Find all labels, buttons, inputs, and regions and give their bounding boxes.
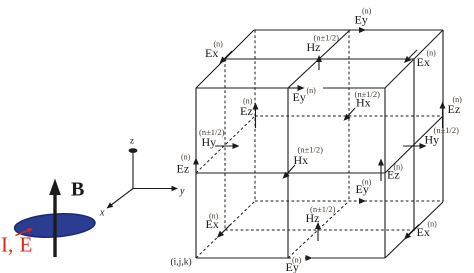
label Hx front (294, 145, 324, 168)
label Hz top (307, 33, 340, 55)
svg-text:(n): (n) (453, 95, 463, 104)
svg-text:E: E (20, 233, 33, 257)
svg-text:(n): (n) (362, 7, 372, 16)
svg-text:(n): (n) (394, 163, 404, 172)
label Ey back-bottom (356, 178, 372, 197)
svg-text:(n±1/2): (n±1/2) (355, 89, 381, 99)
label Ex bottom-right (417, 220, 438, 240)
svg-text:Ez: Ez (448, 102, 461, 116)
left face mid vertical (hidden) (224, 59, 226, 230)
label Ex bottom-left (206, 212, 219, 232)
back face mid horizontal (hidden) (255, 115, 443, 117)
svg-text:I,: I, (1, 233, 13, 257)
arrow Hz top-face center (316, 55, 322, 70)
bottom face mid horizontal (hidden) (225, 229, 414, 231)
top-left edge (196, 30, 254, 88)
top face mid horizontal (225, 58, 414, 60)
label Ez front-left (177, 153, 191, 176)
arrow Ey back-bottom (359, 198, 366, 204)
svg-text:Ez: Ez (240, 104, 253, 118)
arrow Ez back-left (253, 103, 259, 129)
right face mid vertical (413, 59, 415, 231)
arrow Hx back-face center (344, 108, 356, 121)
arrow Ex bottom-left (217, 224, 231, 238)
arrow Ey top-back (359, 27, 366, 33)
svg-text:(n): (n) (209, 212, 219, 221)
top face mid diagonal (288, 30, 350, 88)
front face mid vertical (287, 88, 289, 258)
front-bottom edge (with gap for Ey arrow) (196, 257, 385, 259)
back-bottom edge (hidden) (255, 200, 443, 202)
arrow Ez front-left (193, 158, 199, 176)
svg-text:(n): (n) (427, 49, 437, 58)
arrow Ex bottom-right (404, 225, 419, 240)
front-right edge (384, 88, 386, 258)
label B (71, 179, 84, 201)
svg-text:x: x (99, 208, 105, 219)
label Ez back-left (240, 97, 253, 119)
label Hy right (425, 125, 460, 147)
bottom face mid diagonal (hidden) (288, 201, 349, 258)
bottom-left edge (hidden) (196, 201, 255, 258)
svg-text:z: z (130, 136, 134, 146)
back face mid vertical (hidden) (348, 30, 350, 201)
front-left edge (195, 88, 197, 258)
label Ey front-top (293, 86, 317, 104)
label x (99, 208, 105, 219)
svg-text:(n): (n) (243, 97, 253, 106)
svg-text:(n±1/2): (n±1/2) (298, 145, 324, 155)
arrow Ey front-bottom (305, 255, 313, 261)
svg-text:(n): (n) (362, 178, 372, 187)
svg-text:y: y (179, 186, 185, 197)
axis y (133, 186, 178, 191)
bottom-right edge (385, 202, 443, 258)
back-left edge (hidden) (254, 30, 256, 201)
svg-text:(n): (n) (214, 40, 224, 49)
arrow Ey front-top (288, 85, 305, 91)
arrow Hx front-face center (283, 165, 296, 179)
label Ex top-right (417, 49, 437, 70)
top-back edge (254, 29, 443, 31)
label Hx back (355, 89, 381, 110)
arrow Ex top-right (404, 50, 417, 63)
svg-text:Ez: Ez (177, 162, 190, 176)
current loop (blue disk) (14, 211, 96, 239)
svg-text:Hx: Hx (294, 153, 309, 167)
front face mid horizontal (196, 172, 385, 174)
label Ey front-bottom (286, 256, 302, 273)
arrow Ex top-left (220, 51, 233, 64)
left face mid diagonal (hidden) (196, 116, 255, 173)
label Hz bottom (306, 204, 336, 225)
label Hy left (199, 127, 225, 149)
label Ey top-back (355, 7, 372, 27)
label Ez back-right (448, 95, 463, 116)
svg-text:(n±1/2): (n±1/2) (434, 125, 460, 135)
label Ex top-left (205, 40, 223, 61)
front-top edge (with gap for Ey arrow) (196, 87, 385, 89)
label I, E (red) (1, 228, 33, 256)
svg-text:(n±1/2): (n±1/2) (314, 33, 340, 43)
label z (130, 136, 134, 146)
top-right edge (385, 30, 443, 88)
svg-text:(n): (n) (181, 153, 191, 162)
svg-text:(i,j,k): (i,j,k) (171, 257, 192, 268)
svg-text:(n±1/2): (n±1/2) (199, 127, 225, 137)
svg-text:Hy: Hy (202, 135, 217, 149)
svg-text:(n): (n) (307, 86, 317, 95)
svg-text:(n): (n) (292, 256, 302, 265)
axis x (107, 189, 134, 209)
back-right edge (442, 30, 444, 202)
axis z (129, 148, 138, 188)
svg-text:B: B (71, 179, 84, 201)
right face mid diagonal (385, 116, 443, 173)
B-field arrow (49, 179, 61, 258)
svg-text:Ey: Ey (293, 90, 306, 104)
arrow Hy right-face center (403, 143, 427, 149)
arrow Hy left-face center (215, 143, 240, 149)
label Ez front-right (387, 163, 403, 182)
label y (179, 186, 185, 197)
label (i,j,k) origin node (171, 257, 192, 268)
svg-text:(n): (n) (428, 220, 438, 229)
arrow Hz bottom-face center (315, 222, 321, 241)
svg-text:(n±1/2): (n±1/2) (310, 204, 336, 214)
arrow Ez front-right (378, 159, 384, 182)
arrow Ez back-right (440, 102, 446, 129)
